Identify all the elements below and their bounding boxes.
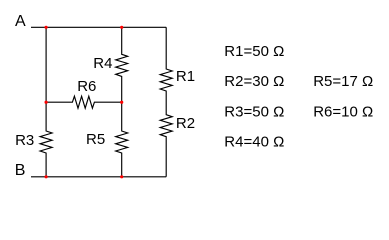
svg-text:R5=17 Ω: R5=17 Ω <box>313 73 373 90</box>
svg-text:R1: R1 <box>176 68 195 85</box>
svg-text:R3=50 Ω: R3=50 Ω <box>224 103 284 120</box>
svg-text:A: A <box>15 13 26 30</box>
svg-text:R1=50 Ω: R1=50 Ω <box>224 43 284 60</box>
svg-text:R3: R3 <box>15 132 34 149</box>
svg-text:R2=30 Ω: R2=30 Ω <box>224 73 284 90</box>
svg-text:R2: R2 <box>176 115 195 132</box>
svg-text:R5: R5 <box>86 131 105 148</box>
svg-text:B: B <box>15 162 26 179</box>
svg-text:R6: R6 <box>77 78 96 95</box>
svg-text:R6=10 Ω: R6=10 Ω <box>313 103 373 120</box>
svg-text:R4: R4 <box>93 55 112 72</box>
svg-text:R4=40 Ω: R4=40 Ω <box>224 134 284 151</box>
